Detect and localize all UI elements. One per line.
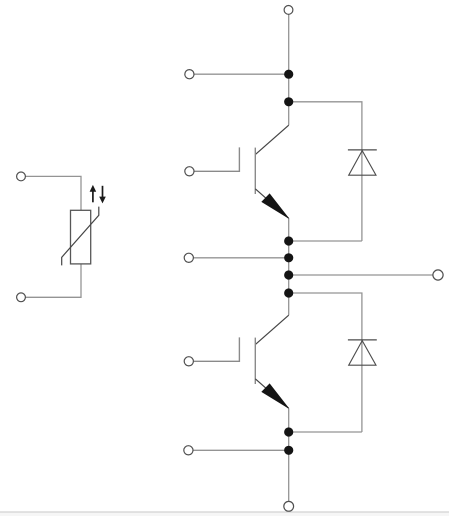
wire: lower diode branch top — [289, 293, 362, 432]
wire: left tap to collector node — [194, 73, 289, 75]
op: upper IGBT Q1 gate bar — [194, 147, 240, 171]
thermistor RT wire: rect to bottom terminal — [26, 264, 82, 297]
junction dot: collector tap — [284, 70, 293, 79]
terminal: lower emitter aux — [184, 446, 193, 455]
junction dot: lower emitter node — [284, 427, 293, 436]
terminal: thermistor bottom — [17, 293, 26, 302]
op: lower IGBT Q2 gate bar — [194, 337, 240, 361]
op: upper IGBT Q1 emitter arrowhead — [262, 194, 289, 218]
op: lower IGBT Q2 collector lead — [255, 315, 288, 344]
junction dot: upper emitter node — [284, 236, 293, 245]
junction dot: phase output node — [284, 270, 293, 279]
junction dot: upper diode top — [284, 97, 293, 106]
wire: top terminal down to upper collector bend — [288, 14, 290, 125]
terminal: phase output right — [433, 270, 443, 280]
wire: lower-left emitter tap — [193, 449, 289, 451]
wire: bottom vertical to bottom terminal — [288, 408, 290, 501]
wire: mid rail vertical — [288, 218, 290, 315]
wire: mid-left emitter tap — [193, 257, 288, 259]
junction dot: lower diode top — [284, 288, 293, 297]
diode D2 triangle — [349, 341, 376, 366]
terminal: thermistor top — [17, 172, 26, 181]
thermistor RT body rect — [71, 210, 91, 264]
terminal: upper gate — [185, 167, 194, 176]
diode D1 triangle — [349, 151, 376, 176]
thermistor RT wire: top terminal to rect — [26, 176, 82, 210]
terminal: DC+ top — [284, 5, 293, 14]
junction dot: mid-left tap node — [284, 253, 293, 262]
wire: phase output to right terminal — [289, 274, 433, 276]
terminal: upper collector aux — [185, 70, 194, 79]
op: upper IGBT Q1 body bar — [254, 148, 256, 194]
arrow down (resistance) — [102, 186, 104, 197]
op: lower IGBT Q2 emitter lead — [255, 379, 288, 408]
wire: upper diode branch top — [289, 102, 362, 241]
junction dot: lower-left tap node — [284, 446, 293, 455]
diode D2 cathode bar — [348, 339, 377, 341]
wire: upper emitter node to diode bottom — [289, 240, 362, 242]
thermistor RT diagonal with feet — [62, 207, 99, 266]
op: lower IGBT Q2 body bar — [254, 338, 256, 384]
op: upper IGBT Q1 collector lead — [255, 125, 288, 154]
op: upper IGBT Q1 emitter lead — [255, 189, 288, 218]
wire: lower emitter node to diode bottom — [289, 431, 362, 433]
bottom page separator line — [0, 513, 449, 516]
terminal: DC- bottom — [284, 501, 294, 511]
diode D1 cathode bar — [348, 149, 377, 151]
terminal: lower gate — [184, 357, 193, 366]
terminal: mid emitter aux — [184, 253, 193, 262]
op: lower IGBT Q2 emitter arrowhead — [262, 384, 289, 408]
arrow up (temperature) — [92, 191, 94, 203]
